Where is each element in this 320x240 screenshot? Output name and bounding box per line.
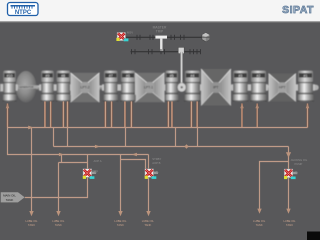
pump status icon AOP-A	[83, 169, 97, 179]
svg-text:50%: 50%	[93, 169, 99, 173]
line D	[8, 128, 149, 155]
bearing #5 pedestal	[163, 71, 180, 102]
exciter stub left edge	[0, 84, 4, 92]
svg-text:TANK: TANK	[55, 223, 62, 227]
svg-text:#3: #3	[238, 74, 242, 78]
svg-text:GENERATOR: GENERATOR	[19, 86, 34, 89]
svg-text:#7: #7	[109, 74, 113, 78]
svg-text:PUMP: PUMP	[295, 162, 303, 166]
pump 2 drop line	[148, 155, 150, 212]
steam line 1	[126, 36, 202, 38]
line E to pump 1	[59, 162, 88, 164]
pump labels	[93, 157, 308, 173]
bearing oil drain pipes	[44, 101, 198, 127]
tank labels	[25, 219, 296, 227]
svg-text:TANK: TANK	[28, 223, 35, 227]
svg-text:LPT-2: LPT-2	[80, 86, 89, 90]
svg-text:SIPAT: SIPAT	[282, 4, 314, 16]
drop from bearing 4 pipe to C	[197, 128, 199, 147]
NTPC logo	[8, 3, 39, 17]
branch F to pump 2	[121, 160, 146, 169]
oil pipe network	[8, 128, 308, 212]
drop from bearing 8 pipe to C	[67, 128, 69, 147]
svg-text:TANK: TANK	[286, 223, 293, 227]
drain riser 1 to tank	[31, 128, 33, 212]
line 1 tick marks	[137, 35, 184, 40]
LPT-1 turbine casing	[135, 73, 165, 102]
bearing #1 pedestal	[296, 71, 315, 102]
svg-text:LUBE OIL: LUBE OIL	[253, 219, 266, 223]
drain riser 2 to tank	[58, 163, 60, 212]
shaft	[0, 85, 318, 90]
svg-text:LUBE OIL: LUBE OIL	[142, 219, 155, 223]
coupling between bearings 5 and 4	[177, 83, 186, 92]
svg-text:#9: #9	[46, 74, 50, 78]
line C	[54, 146, 289, 148]
header line B	[8, 127, 308, 129]
top white header bar	[0, 0, 320, 21]
drop from bearing 6 pipe to C	[125, 128, 127, 147]
bearing #8 pedestal	[55, 71, 73, 102]
svg-text:TANK: TANK	[144, 223, 151, 227]
riser valve box	[178, 47, 184, 53]
svg-text:TANK: TANK	[256, 223, 263, 227]
drop from B to C left	[53, 128, 55, 147]
riser pipe to shaft	[180, 52, 183, 86]
drain riser 3	[120, 155, 122, 212]
black patch bottom-right	[307, 232, 320, 240]
oil supply pipes with up arrows	[6, 103, 310, 127]
svg-text:#4: #4	[191, 74, 195, 78]
svg-text:LUBE OIL: LUBE OIL	[114, 219, 127, 223]
bearing #10 pedestal	[1, 71, 18, 102]
bearing #9 pedestal	[39, 71, 56, 102]
hex nut end	[202, 33, 210, 42]
shaft end knob right	[313, 85, 319, 91]
svg-text:IPT: IPT	[213, 86, 218, 90]
main oil tank tag	[1, 192, 26, 203]
svg-text:MSV: MSV	[127, 31, 133, 35]
HPT turbine casing	[269, 74, 297, 102]
IPT turbine casing	[201, 69, 231, 106]
svg-text:#2: #2	[257, 74, 261, 78]
bearing #7 pedestal	[102, 71, 120, 102]
svg-text:#8: #8	[61, 74, 65, 78]
svg-text:LUBE OIL: LUBE OIL	[52, 219, 65, 223]
generator	[15, 71, 39, 103]
steam line 2	[131, 51, 201, 53]
stop valve (white gate)	[155, 36, 167, 39]
svg-text:LPT-1: LPT-1	[144, 86, 153, 90]
svg-text:TRIP: TRIP	[156, 30, 164, 34]
svg-text:LUBE OIL: LUBE OIL	[25, 219, 38, 223]
LPT-2 turbine casing	[71, 73, 100, 102]
svg-text:NTPC: NTPC	[15, 10, 32, 16]
svg-text:#6: #6	[126, 74, 130, 78]
pump 1 line with return to tag	[25, 155, 88, 198]
pump status icon AOP-B	[145, 169, 159, 179]
svg-text:TANK: TANK	[6, 198, 14, 202]
svg-text:TANK: TANK	[117, 223, 124, 227]
bearing #2 pedestal	[249, 71, 268, 102]
svg-text:HPT: HPT	[279, 86, 286, 90]
stub from collector to pump suction	[61, 155, 63, 163]
svg-text:#1: #1	[304, 74, 308, 78]
drop B to C mid	[175, 128, 177, 147]
bearing #3 pedestal	[231, 71, 250, 102]
branch to drain riser 4	[260, 162, 289, 210]
svg-text:AOP A: AOP A	[94, 159, 102, 163]
flow arrows	[28, 126, 291, 217]
line C right drop through pump 3	[288, 147, 290, 210]
svg-text:JACKING OIL: JACKING OIL	[291, 158, 308, 162]
bearing #4 pedestal	[183, 71, 202, 102]
bearing #6 pedestal	[119, 71, 137, 102]
pump status icon JOP	[284, 169, 298, 179]
svg-text:LUBE OIL: LUBE OIL	[283, 219, 296, 223]
svg-text:STDBY: STDBY	[152, 157, 161, 161]
pump status icon MSV	[116, 32, 128, 41]
svg-text:#5: #5	[170, 74, 174, 78]
SIPAT title	[282, 4, 314, 16]
svg-text:AOP B: AOP B	[152, 161, 160, 165]
line 2 tick marks	[132, 49, 201, 54]
svg-text:#10: #10	[7, 74, 13, 78]
